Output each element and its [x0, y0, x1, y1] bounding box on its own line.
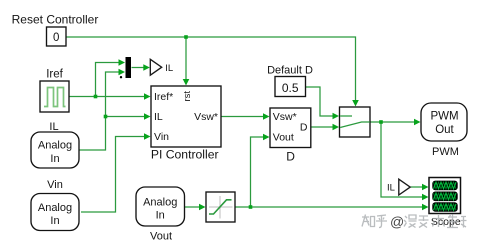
- svg-text:@: @: [390, 214, 404, 230]
- svg-text:Reset Controller: Reset Controller: [12, 12, 99, 26]
- svg-text:D: D: [286, 149, 295, 163]
- svg-text:Vsw*: Vsw*: [194, 111, 218, 123]
- svg-text:rst: rst: [182, 91, 193, 102]
- svg-text:Iref*: Iref*: [154, 91, 173, 103]
- svg-text:0.5: 0.5: [282, 81, 299, 95]
- svg-text:Vin: Vin: [47, 179, 63, 191]
- svg-text:IL: IL: [49, 121, 58, 133]
- svg-text:PWM: PWM: [432, 146, 459, 158]
- svg-text:PI Controller: PI Controller: [151, 148, 219, 162]
- svg-text:D: D: [300, 122, 308, 134]
- svg-text:Vout: Vout: [273, 132, 294, 144]
- svg-text:Analog: Analog: [143, 196, 177, 208]
- svg-text:In: In: [50, 215, 59, 227]
- svg-text:In: In: [156, 210, 165, 222]
- svg-text:0: 0: [53, 32, 59, 44]
- svg-text:Vout: Vout: [150, 231, 172, 242]
- svg-text:IL: IL: [387, 182, 395, 193]
- svg-text:Analog: Analog: [38, 140, 72, 152]
- svg-text:Default D: Default D: [267, 64, 313, 76]
- svg-text:Vin: Vin: [154, 131, 169, 143]
- svg-text:In: In: [50, 153, 59, 165]
- svg-text:Iref: Iref: [46, 69, 63, 81]
- svg-text:Analog: Analog: [38, 202, 72, 214]
- svg-text:IL: IL: [165, 63, 173, 74]
- svg-text:IL: IL: [154, 111, 163, 123]
- svg-text:PWM: PWM: [430, 111, 458, 123]
- svg-text:Out: Out: [435, 124, 454, 136]
- svg-text:Vsw*: Vsw*: [273, 111, 297, 123]
